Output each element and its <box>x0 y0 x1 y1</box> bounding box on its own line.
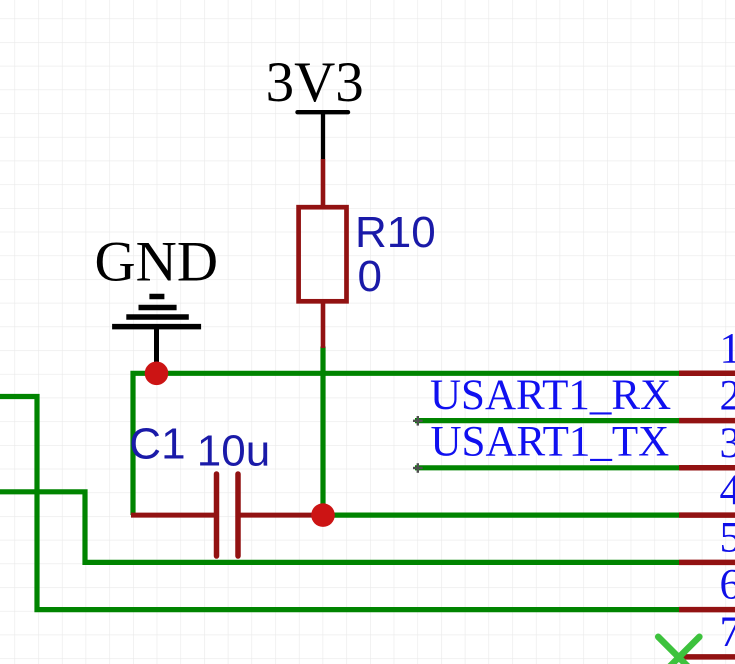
pin 3 stub <box>679 465 735 471</box>
svg-text:4: 4 <box>720 467 735 514</box>
svg-text:3V3: 3V3 <box>266 51 364 114</box>
svg-text:R10: R10 <box>355 208 436 257</box>
resistor R10 <box>299 159 347 348</box>
junction at C1 right <box>311 503 335 527</box>
svg-text:3: 3 <box>720 420 735 467</box>
wire end marker TX <box>413 463 423 473</box>
svg-text:7: 7 <box>720 609 735 656</box>
no-connect X on pin 7 <box>658 637 699 664</box>
svg-text:6: 6 <box>720 562 735 609</box>
pin 2 stub <box>679 418 735 424</box>
svg-text:0: 0 <box>358 252 382 301</box>
wire pin 5 from left edge <box>0 492 679 563</box>
svg-text:10u: 10u <box>197 427 270 476</box>
svg-text:1: 1 <box>720 325 735 372</box>
capacitor C1 <box>131 474 323 556</box>
pin 7 stub <box>678 654 735 660</box>
wire pin 4 (3V3 net) <box>323 512 679 517</box>
pin 5 stub <box>679 560 735 566</box>
ground GND <box>95 230 219 371</box>
svg-text:USART1_TX: USART1_TX <box>431 419 670 466</box>
wire R10 bottom to junction <box>320 347 325 516</box>
wire USART1_TX (pin 3) <box>415 465 679 470</box>
pin 6 stub <box>679 607 735 613</box>
pin 4 stub <box>679 512 735 518</box>
wire USART1_RX (pin 2) <box>415 418 679 423</box>
power symbol 3V3 <box>266 51 364 159</box>
wire end marker RX <box>413 416 423 426</box>
svg-text:5: 5 <box>720 514 735 561</box>
wire net GND (pin1 to C1 left) <box>133 373 679 515</box>
svg-text:2: 2 <box>720 373 735 420</box>
svg-text:C1: C1 <box>129 420 185 469</box>
junction at GND stem <box>145 362 169 386</box>
svg-text:GND: GND <box>95 230 219 293</box>
svg-text:USART1_RX: USART1_RX <box>430 372 671 419</box>
wire pin 6 from left edge <box>0 397 679 610</box>
pin 1 stub <box>679 371 735 377</box>
